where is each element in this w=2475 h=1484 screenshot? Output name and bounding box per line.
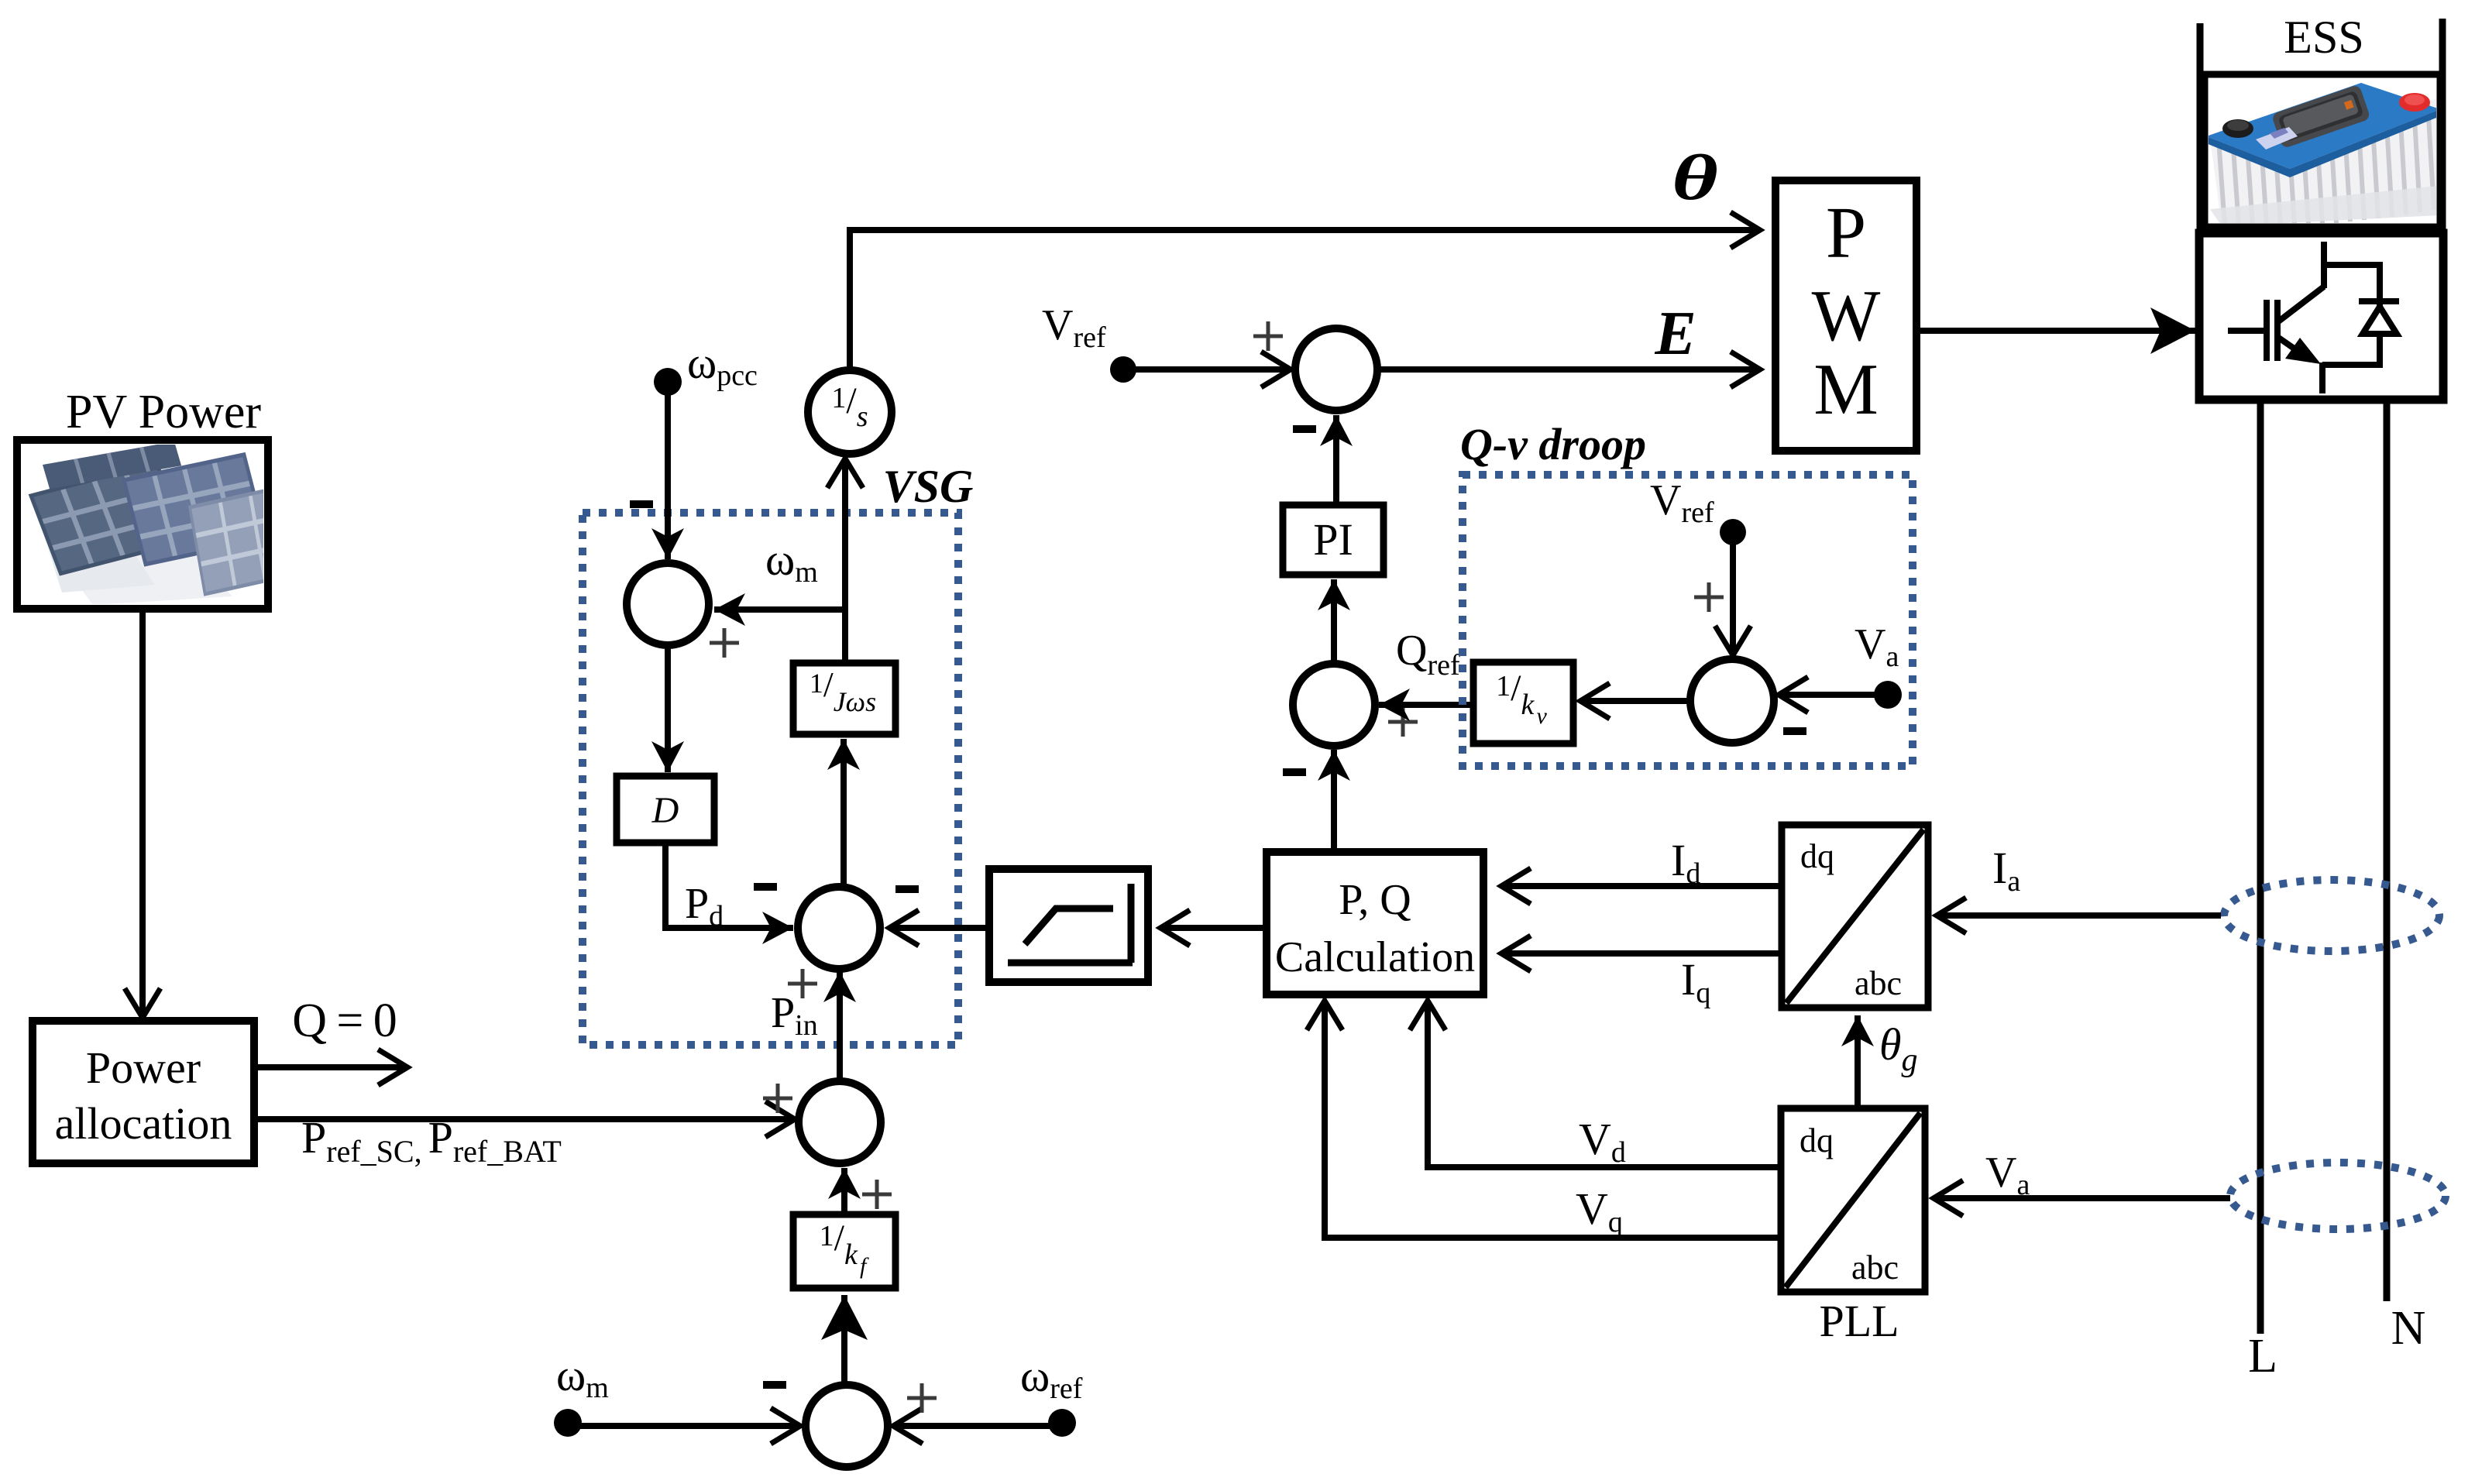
wire S1 to D block	[665, 644, 671, 772]
summing junction S1	[627, 563, 709, 645]
sign minus above omega_m wire	[763, 1381, 786, 1389]
svg-text:dq: dq	[1800, 837, 1834, 875]
block P,Q Calculation	[1267, 852, 1483, 994]
wire omega_m branch to S1	[714, 606, 845, 613]
svg-text:PV Power: PV Power	[66, 386, 261, 438]
sign minus at S2 left	[754, 883, 777, 891]
Q-v droop dotted boundary	[1463, 475, 1913, 766]
wire P,Q calc to S5	[1331, 750, 1337, 850]
svg-text:dq: dq	[1800, 1122, 1834, 1159]
wire Qref from 1/kv to S5	[1379, 702, 1473, 708]
block 1/kf	[793, 1214, 895, 1288]
block D	[617, 776, 714, 843]
wire Va to S6	[1779, 692, 1888, 698]
diode D1 loop	[2322, 265, 2380, 365]
ESS bracket right line	[2439, 19, 2446, 233]
panel middle	[124, 455, 266, 565]
node omega_pcc input dot	[654, 368, 682, 396]
sign minus at S5 bottom-left	[1283, 768, 1306, 776]
block 1/kv	[1473, 662, 1573, 744]
svg-text:P: P	[1826, 193, 1866, 273]
svg-text:θ: θ	[1672, 142, 1718, 214]
wire Vref to sum S_E	[1123, 366, 1291, 373]
sign plus above S3	[763, 1084, 792, 1113]
panel right light	[190, 487, 297, 594]
wire PV Power to Power allocation	[139, 609, 146, 1018]
wire Vq from PLL to P,Q calculation	[1325, 1001, 1781, 1238]
svg-text:N: N	[2391, 1302, 2426, 1355]
block 1/Jws	[793, 663, 895, 734]
sign minus at S2 right	[895, 885, 919, 893]
summing junction S_E	[1295, 328, 1377, 411]
wire Id to P,Q calculation	[1501, 883, 1782, 889]
ESS bracket left line	[2197, 23, 2204, 233]
small label on plate	[2256, 127, 2298, 149]
block PWM	[1775, 180, 1916, 451]
wire 1/kf to S3	[841, 1168, 847, 1214]
wire PWM to inverter	[1916, 328, 2195, 334]
sign minus at S1 top	[630, 500, 653, 508]
svg-text:Calculation: Calculation	[1275, 933, 1475, 981]
block PV Power image box	[17, 440, 297, 609]
svg-text:W: W	[1812, 276, 1881, 356]
svg-text:abc: abc	[1855, 964, 1902, 1002]
svg-text:D: D	[651, 790, 679, 831]
block battery image box	[2205, 74, 2440, 227]
node omega_ref input dot	[1048, 1409, 1076, 1437]
wire E output to PWM	[1378, 366, 1760, 373]
sign minus below S6 right	[1783, 727, 1806, 735]
voltage sensor ellipse on L/N	[2230, 1163, 2446, 1229]
summing junction S3	[799, 1081, 881, 1163]
wire S2 to 1/Jws block	[840, 739, 847, 888]
sign plus at S_E left	[1253, 321, 1283, 351]
wire Iq to P,Q calculation	[1501, 950, 1782, 957]
block limiter	[989, 869, 1148, 982]
svg-text:ESS: ESS	[2284, 12, 2363, 63]
summing junction S6	[1690, 659, 1774, 743]
ribbed cell body	[2210, 99, 2438, 226]
wire limiter to S2	[889, 925, 989, 931]
current sensor ellipse on L/N	[2224, 880, 2439, 951]
block Power allocation	[33, 1021, 254, 1163]
wire omega_ref to S4	[893, 1423, 1062, 1429]
wire S3 to S2 (Pin)	[837, 971, 843, 1079]
summing junction S2	[798, 887, 880, 969]
svg-text:allocation: allocation	[55, 1098, 232, 1149]
svg-text:Q-v droop: Q-v droop	[1460, 419, 1646, 469]
sign minus below S_E	[1293, 425, 1316, 433]
wire S4 to 1/kf	[841, 1295, 847, 1386]
svg-text:PLL: PLL	[1819, 1296, 1899, 1346]
wire Vd from PLL to P,Q calculation	[1428, 1001, 1781, 1167]
blue top plate	[2206, 83, 2440, 169]
red knob	[2399, 93, 2430, 112]
svg-text:abc: abc	[1851, 1249, 1899, 1286]
wire D to sum S2 (Pd)	[665, 843, 793, 928]
block dq/abc transform (current)	[1782, 825, 1928, 1008]
black knob	[2222, 119, 2253, 138]
svg-text:PI: PI	[1313, 514, 1353, 565]
wire P,Q calculation to limiter	[1160, 925, 1267, 931]
sign plus at S5 right	[1388, 707, 1418, 737]
wire Pref_SC, Pref_BAT to sum S3	[254, 1116, 795, 1122]
node Vref droop dot	[1720, 519, 1746, 545]
node Va droop dot	[1874, 681, 1902, 709]
wire Ia to dq1	[1937, 912, 2221, 919]
wire omega_pcc to sum S1	[665, 391, 671, 559]
block inverter box	[2199, 233, 2443, 400]
summing junction S4	[806, 1385, 888, 1467]
node omega_m input dot	[554, 1409, 582, 1437]
ground shadow	[46, 511, 232, 605]
transistor IGBT symbol	[2228, 242, 2324, 393]
svg-text:E: E	[1654, 300, 1696, 368]
VSG dotted boundary	[583, 513, 958, 1045]
svg-text:Q = 0: Q = 0	[292, 994, 397, 1047]
sign plus at S1 right	[710, 628, 739, 658]
transistor emitter arrow	[2285, 338, 2321, 364]
wire omega_m to S4	[568, 1423, 800, 1429]
diode D1 symbol	[2359, 301, 2399, 334]
dark module on plate	[2271, 84, 2371, 149]
svg-text:M: M	[1813, 349, 1879, 430]
node Vref input dot	[1110, 356, 1136, 383]
wire theta from 1/s to PWM	[850, 230, 1760, 369]
wire line L	[2257, 400, 2264, 1334]
panel top sliver	[43, 441, 181, 489]
svg-text:P, Q: P, Q	[1339, 876, 1411, 924]
block PLL dq/abc transform	[1781, 1108, 1925, 1292]
svg-text:L: L	[2248, 1330, 2277, 1383]
wire S5 to PI	[1331, 579, 1337, 663]
wire 1/Jws up to integrator 1/s	[842, 459, 848, 663]
svg-text:VSG: VSG	[883, 461, 974, 512]
summing junction S5	[1293, 664, 1375, 746]
wire Q=0 output	[254, 1064, 407, 1070]
svg-text:Power: Power	[86, 1043, 201, 1093]
wire PI to S_E	[1333, 415, 1339, 505]
wire S6 to 1/kv	[1580, 698, 1689, 704]
integrator block 1/s	[808, 370, 892, 454]
wire line N	[2384, 400, 2391, 1301]
sign plus at S2 bottom	[788, 969, 817, 998]
panel left dark	[31, 463, 186, 573]
sign plus below S3 right	[862, 1180, 892, 1209]
sign plus above omega_ref wire	[907, 1383, 937, 1413]
sign plus left of Vref wire	[1694, 582, 1724, 612]
wire Vref droop to S6	[1730, 542, 1736, 655]
wire Va to PLL	[1934, 1195, 2230, 1201]
wire theta_g from PLL to dq1	[1855, 1015, 1861, 1108]
block PI	[1283, 505, 1384, 575]
